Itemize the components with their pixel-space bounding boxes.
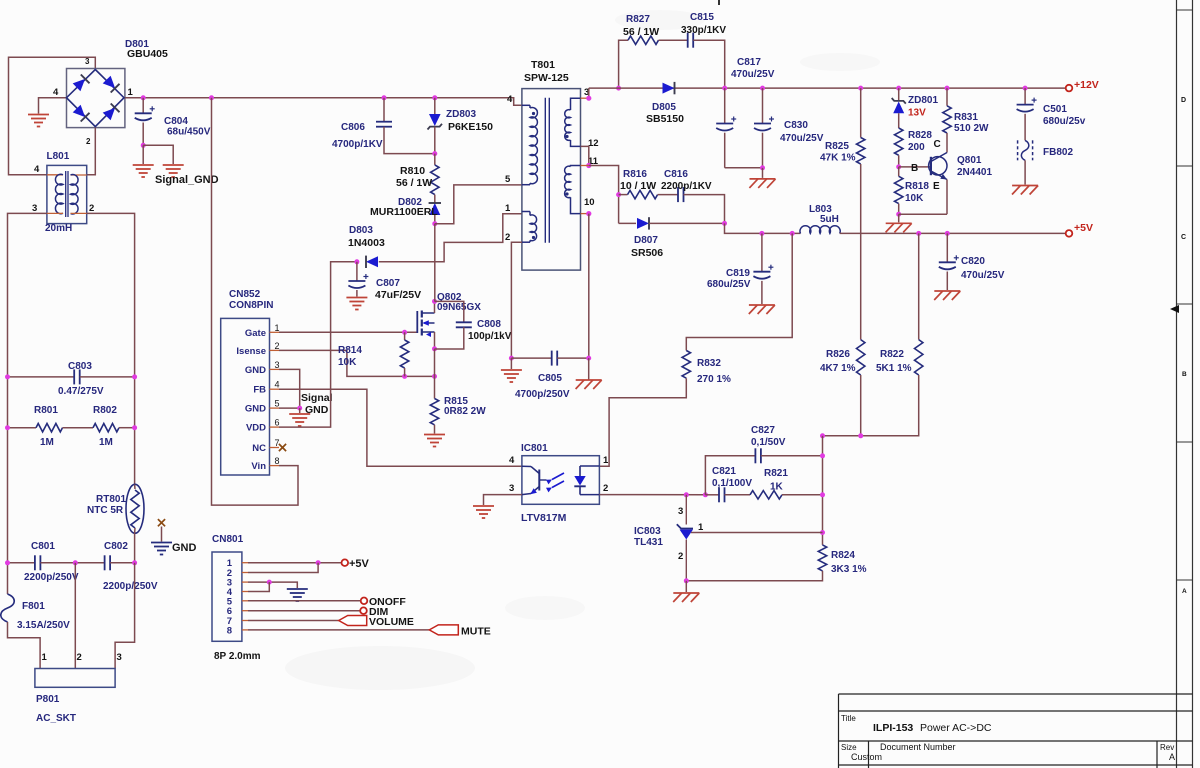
svg-text:C801: C801: [31, 541, 55, 552]
bridge rectifier D801: [67, 69, 125, 128]
svg-text:1K: 1K: [770, 482, 784, 493]
capacitor C804: [142, 98, 144, 114]
svg-text:ZD801: ZD801: [908, 95, 938, 106]
wire D803 anode to T801 pin1: [379, 214, 522, 262]
wire C815 to rail: [693, 40, 725, 88]
optocoupler IC801: [522, 456, 600, 505]
inductor L803: [800, 226, 840, 234]
svg-text:2: 2: [275, 341, 280, 351]
svg-text:Custom: Custom: [851, 752, 882, 762]
junction Q802 source: [432, 346, 437, 351]
svg-text:C501: C501: [1043, 104, 1067, 115]
wire L801 pin2 right column: [87, 213, 135, 484]
svg-text:R801: R801: [34, 405, 58, 416]
svg-text:13V: 13V: [908, 108, 926, 119]
capacitor C830: [762, 88, 764, 123]
svg-text:E: E: [933, 181, 940, 192]
svg-text:SR506: SR506: [631, 247, 663, 259]
capacitor C801: [8, 562, 35, 564]
ground signal gnd at CN852: [289, 413, 310, 415]
junction R814 bottom: [402, 374, 407, 379]
junction C806 top: [382, 95, 387, 100]
capacitor C803: [8, 376, 75, 378]
ground signal gnd right: [163, 164, 184, 166]
svg-text:1: 1: [505, 203, 511, 214]
wire bridge pin1 / HV rail: [125, 98, 522, 106]
terminal +5V: [1066, 230, 1073, 237]
ferrite bead FB802: [1017, 140, 1019, 160]
wire bridge pin4 to ground: [39, 98, 68, 114]
wire Vin pin8 loop from HV rail: [212, 98, 299, 505]
no-connect X at NC pin7: [279, 444, 286, 451]
wire C827 branch: [705, 456, 755, 495]
wire C802 to P801 pin3: [115, 563, 135, 669]
svg-text:Rev: Rev: [1160, 743, 1174, 752]
wire R832 branch: [686, 233, 792, 350]
svg-text:1: 1: [698, 522, 704, 533]
svg-text:4: 4: [509, 455, 515, 466]
wire Q802 drain: [434, 301, 436, 313]
svg-text:R832: R832: [697, 358, 721, 369]
resistor R814: [404, 332, 406, 340]
svg-text:NTC 5R: NTC 5R: [87, 505, 124, 516]
capacitor C817: [724, 88, 726, 123]
junction pin3 pin4: [267, 580, 272, 585]
svg-text:2200p/250V: 2200p/250V: [24, 572, 79, 583]
junction R832 tap: [790, 231, 795, 236]
junction C827 right: [820, 453, 825, 458]
svg-text:4700p/1KV: 4700p/1KV: [332, 139, 383, 150]
capacitor C805: [511, 357, 551, 359]
resistor R810: [434, 154, 436, 165]
svg-text:R816: R816: [623, 169, 647, 180]
svg-text:R826: R826: [826, 349, 850, 360]
resistor R816: [619, 194, 628, 196]
svg-text:C820: C820: [961, 256, 985, 267]
wire C827 right: [761, 455, 823, 457]
ground chassis IC803: [673, 592, 699, 594]
svg-text:3: 3: [117, 652, 122, 663]
svg-text:Vin: Vin: [251, 461, 266, 472]
svg-text:0.47/275V: 0.47/275V: [58, 386, 104, 397]
svg-text:C807: C807: [376, 278, 400, 289]
wire GND pin3 jog: [279, 369, 300, 408]
wire T801 pin12 to pin11 node: [581, 146, 589, 165]
diode D802: [429, 203, 440, 215]
svg-text:R831: R831: [954, 112, 978, 123]
ground chassis R818: [886, 222, 912, 224]
fuse F801: [1, 594, 15, 622]
wire drain column: [434, 224, 436, 302]
wire CN801 pin3 to gnd: [248, 582, 297, 588]
svg-text:P801: P801: [36, 694, 60, 705]
wire pin11 to R816/D807 branch: [589, 166, 619, 224]
wire FB802 gnd stem: [1024, 160, 1026, 184]
wire R824 bottom: [686, 571, 822, 581]
ground blue CN801: [287, 588, 308, 590]
svg-text:10K: 10K: [905, 193, 924, 204]
wire CN801 pin2: [248, 563, 318, 573]
svg-text:5: 5: [505, 174, 511, 185]
svg-text:+12V: +12V: [1074, 79, 1099, 91]
svg-text:3K3 1%: 3K3 1%: [831, 564, 867, 575]
svg-text:09N65GX: 09N65GX: [437, 302, 481, 313]
svg-text:4: 4: [53, 87, 59, 98]
resistor R828: [895, 128, 903, 155]
diode D807: [637, 218, 649, 229]
svg-text:C806: C806: [341, 122, 365, 133]
capacitor C807: [356, 262, 358, 281]
junction cap gnd: [760, 165, 765, 170]
capacitor C827: [754, 448, 756, 463]
svg-text:Document Number: Document Number: [880, 742, 956, 752]
transformer T801: [522, 89, 581, 271]
wire IC803 gnd stem: [685, 581, 687, 592]
junction R815 top: [432, 374, 437, 379]
svg-text:470u/25V: 470u/25V: [731, 69, 775, 80]
wire bridge top loop to L801 pin4: [9, 57, 96, 175]
capacitor C821: [705, 494, 719, 496]
junction pin3: [586, 96, 591, 101]
junction R802 right: [132, 425, 137, 430]
resistor R802: [93, 424, 119, 432]
junction R822 top: [916, 231, 921, 236]
svg-text:3: 3: [275, 360, 280, 370]
svg-text:56 / 1W: 56 / 1W: [623, 26, 659, 38]
zener ZD803: [434, 98, 436, 114]
svg-text:56 / 1W: 56 / 1W: [396, 177, 432, 189]
wire CN801 pin6 DIM: [248, 610, 360, 612]
wire C805 left gnd stem: [510, 358, 512, 369]
junction C805 right: [586, 356, 591, 361]
resistor R821: [750, 491, 782, 499]
junction P801 pin2 tap: [73, 560, 78, 565]
junction IC803 ref node: [684, 492, 689, 497]
svg-text:100p/1kV: 100p/1kV: [468, 331, 512, 342]
svg-text:GND: GND: [245, 404, 266, 415]
junction R831 top: [945, 86, 950, 91]
capacitor C816: [677, 187, 679, 202]
svg-text:Isense: Isense: [236, 346, 266, 357]
diode D803: [366, 256, 378, 267]
junction ZD803 top: [432, 95, 437, 100]
svg-text:B: B: [1182, 371, 1187, 378]
wire IC803 ref to R824 node: [691, 532, 823, 534]
ground at bridge pin4: [28, 114, 49, 116]
svg-text:4: 4: [34, 164, 40, 175]
wire D807 row: [619, 222, 636, 224]
svg-text:C827: C827: [751, 425, 775, 436]
junction D807 cathode node: [722, 221, 727, 226]
svg-text:R818: R818: [905, 181, 929, 192]
junction IC803 anode: [684, 578, 689, 583]
resistor R818: [898, 167, 900, 176]
svg-text:D807: D807: [634, 235, 658, 246]
wire IC801 pin3 to ground: [484, 495, 522, 505]
junction R825 top: [858, 86, 863, 91]
svg-text:5: 5: [275, 399, 280, 409]
svg-text:7: 7: [275, 438, 280, 448]
svg-text:C817: C817: [737, 57, 761, 68]
wire signal gnd stem: [299, 408, 301, 413]
ground IC801 pin3: [473, 505, 494, 507]
svg-text:3: 3: [32, 203, 37, 214]
junction pin10: [586, 211, 591, 216]
ground chassis C820: [934, 290, 960, 292]
junction snubber right: [616, 86, 621, 91]
wire +12V rail: [589, 87, 1066, 89]
svg-text:R828: R828: [908, 130, 932, 141]
svg-text:200: 200: [908, 142, 925, 153]
connector CN852: [221, 318, 270, 475]
svg-text:2: 2: [678, 551, 683, 562]
svg-text:CON8PIN: CON8PIN: [229, 300, 273, 311]
wire CN801 pin8 MUTE: [248, 629, 429, 631]
wire RT801 to C802 row: [134, 533, 136, 563]
svg-text:2200p/250V: 2200p/250V: [103, 581, 158, 592]
resistor R832: [682, 351, 690, 379]
svg-text:2: 2: [89, 203, 94, 214]
wire Q801 emitter drop: [946, 180, 948, 215]
svg-text:+5V: +5V: [1074, 222, 1093, 234]
resistor R827: [628, 36, 659, 44]
svg-text:68u/450V: 68u/450V: [167, 127, 211, 138]
junction R801 left: [5, 425, 10, 430]
junction C804 top: [141, 95, 146, 100]
svg-text:8P 2.0mm: 8P 2.0mm: [214, 651, 261, 662]
svg-text:R822: R822: [880, 349, 904, 360]
svg-text:330p/1KV: 330p/1KV: [681, 25, 726, 36]
svg-text:1: 1: [42, 652, 48, 663]
wire P801 pin2 drop: [74, 563, 76, 669]
thermistor RT801: [126, 484, 144, 533]
wire T801 pin2 drop to C805: [511, 242, 522, 358]
junction R816 left: [616, 192, 621, 197]
wire C816 to D807 node: [684, 195, 725, 224]
svg-text:10 / 1W: 10 / 1W: [620, 180, 656, 192]
wire GND pin5: [279, 407, 300, 409]
svg-text:10K: 10K: [338, 357, 357, 368]
svg-text:1M: 1M: [40, 437, 54, 448]
capacitor C815: [687, 33, 689, 48]
capacitor C808: [435, 301, 464, 322]
svg-text:GBU405: GBU405: [127, 48, 168, 60]
svg-text:C802: C802: [104, 541, 128, 552]
svg-text:Signal: Signal: [301, 392, 333, 404]
svg-text:20mH: 20mH: [45, 223, 72, 234]
wire R832 to IC801 pin1: [599, 378, 686, 466]
junction ZD803 bottom: [432, 151, 437, 156]
svg-text:C804: C804: [164, 116, 188, 127]
junction R818 bottom: [896, 212, 901, 217]
ground chassis C805 right: [576, 379, 602, 381]
flag MUTE: [429, 625, 458, 635]
svg-text:R810: R810: [400, 165, 425, 177]
svg-text:FB: FB: [253, 385, 266, 396]
svg-text:47K 1%: 47K 1%: [820, 153, 856, 164]
capacitor C802: [104, 555, 106, 570]
svg-text:Gate: Gate: [245, 328, 266, 339]
svg-text:1: 1: [275, 323, 280, 333]
svg-text:L801: L801: [47, 151, 70, 162]
svg-text:IC801: IC801: [521, 443, 548, 454]
svg-text:GND: GND: [305, 404, 329, 416]
svg-text:2: 2: [77, 652, 82, 663]
wire C804 to grounds: [142, 145, 144, 164]
junction Vin drop: [209, 95, 214, 100]
junction R826 bottom: [858, 433, 863, 438]
svg-text:C821: C821: [712, 466, 736, 477]
svg-text:NC: NC: [252, 443, 266, 454]
ground chassis C501: [1012, 185, 1038, 187]
ground blue GND near RT801: [151, 542, 172, 544]
shunt regulator IC803 TL431: [685, 495, 687, 525]
svg-text:ILPI-153: ILPI-153: [873, 722, 913, 734]
junction C803 left: [5, 374, 10, 379]
svg-text:GND: GND: [245, 365, 266, 376]
svg-text:270 1%: 270 1%: [697, 374, 731, 385]
resistor R831: [946, 88, 948, 106]
wire T801 pin10 drop: [581, 213, 589, 215]
svg-text:R814: R814: [338, 345, 362, 356]
mosfet Q802: [416, 311, 418, 333]
wire Q802 source: [434, 332, 436, 349]
wire +5V rail: [840, 232, 1066, 234]
junction R824 top: [820, 530, 825, 535]
svg-text:4K7 1%: 4K7 1%: [820, 363, 856, 374]
wire CN801 pin1 to +5V: [248, 562, 342, 564]
svg-text:Signal_GND: Signal_GND: [155, 174, 219, 186]
wire L801 pin3 left column: [8, 213, 47, 594]
wire Isense pin2: [279, 350, 435, 376]
svg-text:R821: R821: [764, 468, 788, 479]
resistor R815: [430, 399, 438, 425]
svg-text:CN801: CN801: [212, 534, 244, 545]
flag VOLUME: [339, 616, 367, 626]
svg-text:12: 12: [588, 138, 599, 149]
svg-text:3: 3: [509, 483, 514, 494]
wire CN801 pin7 VOLUME: [248, 620, 339, 622]
svg-text:5K1 1%: 5K1 1%: [876, 363, 912, 374]
junction C802 right: [132, 560, 137, 565]
svg-text:1N4003: 1N4003: [348, 237, 385, 249]
svg-text:P6KE150: P6KE150: [448, 121, 493, 133]
svg-text:2: 2: [86, 137, 91, 146]
junction Q801 base node: [896, 164, 901, 169]
svg-text:A: A: [1169, 752, 1175, 762]
junction FB node corner: [820, 433, 825, 438]
wire VDD pin6 riser: [279, 262, 357, 427]
inductor L801: [47, 165, 87, 223]
svg-text:+5V: +5V: [349, 558, 370, 570]
svg-text:ZD803: ZD803: [446, 109, 476, 120]
wire to +5V rail: [725, 223, 801, 233]
junction C821 branch: [703, 492, 708, 497]
svg-text:470u/25V: 470u/25V: [961, 270, 1005, 281]
resistor R801: [8, 427, 37, 429]
svg-text:10: 10: [584, 197, 595, 208]
svg-text:C808: C808: [477, 319, 501, 330]
svg-text:R824: R824: [831, 550, 855, 561]
svg-text:2: 2: [603, 483, 608, 494]
wire emitter return: [899, 213, 947, 215]
svg-text:D803: D803: [349, 225, 373, 236]
svg-text:C816: C816: [664, 169, 688, 180]
wire base: [899, 166, 931, 168]
border arrow marker: [1170, 305, 1179, 313]
svg-text:AC_SKT: AC_SKT: [36, 713, 76, 724]
junction ZD801 top: [896, 86, 901, 91]
svg-text:Size: Size: [841, 743, 857, 752]
ground chassis C817 C830: [750, 178, 776, 180]
svg-text:680u/25v: 680u/25v: [1043, 116, 1086, 127]
junction gate R814: [402, 330, 407, 335]
svg-text:1: 1: [603, 455, 609, 466]
svg-text:6: 6: [275, 418, 280, 428]
svg-text:C805: C805: [538, 373, 562, 384]
capacitor C806: [383, 98, 385, 122]
svg-text:MUR1100ERL: MUR1100ERL: [370, 206, 438, 218]
svg-text:1M: 1M: [99, 437, 113, 448]
svg-text:4700p/250V: 4700p/250V: [515, 389, 570, 400]
svg-text:0,1/50V: 0,1/50V: [751, 437, 786, 448]
no-connect X near GND: [158, 519, 165, 526]
zener ZD801: [898, 88, 900, 101]
svg-text:Title: Title: [841, 714, 856, 723]
ground chassis C819: [749, 304, 775, 306]
svg-text:RT801: RT801: [96, 494, 126, 505]
junction C817 top: [722, 86, 727, 91]
wire FB pin4 to IC801 pin4: [279, 389, 522, 466]
svg-text:FB802: FB802: [1043, 147, 1073, 158]
ground C805 left: [501, 369, 522, 371]
ground signal gnd left: [133, 164, 154, 166]
resistor R825: [860, 88, 862, 137]
svg-text:3: 3: [85, 57, 90, 66]
junction R821 right: [820, 492, 825, 497]
svg-text:4: 4: [275, 380, 280, 390]
svg-text:VOLUME: VOLUME: [369, 616, 414, 628]
svg-text:Q801: Q801: [957, 155, 982, 166]
junction D802 cathode node: [432, 221, 437, 226]
resistor R826: [857, 340, 865, 375]
terminal ONOFF: [361, 598, 368, 605]
svg-text:F801: F801: [22, 601, 45, 612]
wire CN801 pin5 ONOFF: [248, 600, 361, 602]
wire D802 node to T801 pin5: [435, 185, 522, 224]
svg-text:A: A: [1182, 588, 1187, 595]
junction signal gnd node: [297, 406, 302, 411]
title block frame: [839, 694, 1193, 768]
transistor Q801: [929, 157, 947, 175]
wire Gate pin1 to Q802 gate: [279, 331, 417, 333]
svg-text:3: 3: [678, 506, 683, 517]
svg-text:3.15A/250V: 3.15A/250V: [17, 620, 70, 631]
wire cap gnd bus: [725, 167, 763, 169]
terminal +12V: [1066, 85, 1073, 92]
svg-text:R802: R802: [93, 405, 117, 416]
junction pin1 pin2: [316, 560, 321, 565]
terminal +5V CN801: [342, 559, 349, 566]
svg-text:1: 1: [128, 87, 134, 98]
junction C803 right: [132, 374, 137, 379]
svg-text:470u/25V: 470u/25V: [780, 133, 824, 144]
svg-text:IC803: IC803: [634, 526, 661, 537]
svg-text:CN852: CN852: [229, 289, 261, 300]
wire snubber branch: [619, 40, 628, 88]
diode D805: [663, 83, 675, 94]
svg-text:R825: R825: [825, 141, 849, 152]
